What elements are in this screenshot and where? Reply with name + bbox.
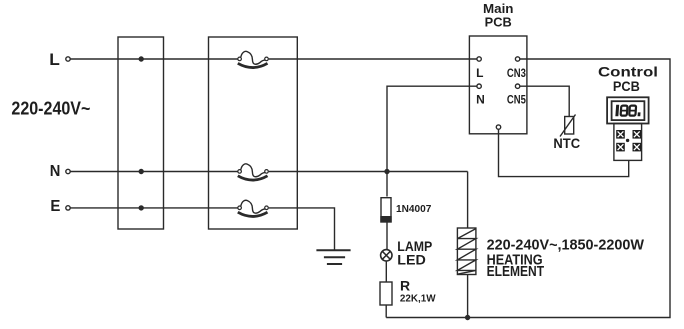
- svg-text:PCB: PCB: [485, 16, 512, 30]
- switch box: [209, 37, 298, 229]
- wire Main PCB bottom pin to Control PCB: [499, 129, 629, 176]
- wire heating element bottom: [467, 275, 469, 318]
- terminal N: [66, 169, 70, 173]
- wire N switch to heating element corner: [269, 171, 468, 173]
- wire resistor to bottom rail: [385, 305, 387, 318]
- wire E terminal to switch: [70, 207, 237, 209]
- wire E switch to ground: [269, 208, 335, 250]
- bottom rail wire: [386, 59, 670, 318]
- wire CN5 to NTC: [520, 86, 569, 116]
- svg-text:CN5: CN5: [507, 93, 526, 107]
- wire heating element top: [467, 172, 469, 229]
- junction dot N in terminal block: [139, 170, 143, 174]
- pin bottom of Main PCB: [496, 125, 500, 129]
- svg-text:220-240V~: 220-240V~: [11, 99, 90, 119]
- pin CN5 of Main PCB: [515, 84, 519, 88]
- svg-text:PCB: PCB: [613, 79, 640, 94]
- junction dot heating element bottom: [466, 316, 470, 320]
- terminal L: [66, 57, 70, 61]
- svg-text:L: L: [49, 50, 60, 69]
- button 4: [633, 143, 642, 152]
- pin CN3 of Main PCB: [515, 57, 519, 61]
- wire L switch to Main PCB: [269, 58, 477, 60]
- Control PCB display window: [612, 101, 645, 120]
- terminal E: [66, 206, 70, 210]
- pin N of Main PCB: [477, 84, 481, 88]
- switch S2 (N line): [238, 164, 269, 180]
- wire N pin to diode branch: [387, 86, 477, 196]
- svg-text:Control: Control: [598, 65, 658, 80]
- button 3: [616, 143, 625, 152]
- svg-text:22K,1W: 22K,1W: [400, 294, 436, 305]
- svg-text:E: E: [50, 198, 60, 215]
- terminal block box: [118, 37, 164, 229]
- resistor R 22K,1W: [380, 282, 392, 305]
- switch S1 (L line): [238, 51, 269, 67]
- NTC thermistor: [560, 115, 576, 137]
- ground: [316, 250, 350, 264]
- label 188 display: [615, 105, 641, 117]
- pin L of Main PCB: [477, 57, 481, 61]
- svg-text:N: N: [50, 163, 61, 180]
- junction dot E in terminal block: [139, 206, 143, 210]
- Control PCB display frame: [607, 97, 649, 123]
- wire N terminal to switch: [70, 171, 237, 173]
- button 1: [616, 130, 625, 139]
- svg-text:R: R: [400, 278, 410, 294]
- wire diode to lamp: [386, 222, 388, 250]
- svg-text:1N4007: 1N4007: [396, 204, 432, 215]
- svg-text:NTC: NTC: [553, 136, 580, 151]
- svg-text:220-240V~,1850-2200W: 220-240V~,1850-2200W: [487, 237, 645, 253]
- svg-text:L: L: [476, 66, 483, 80]
- Control PCB keypad body: [614, 124, 642, 161]
- wire lamp to resistor: [385, 261, 387, 282]
- lamp LED: [381, 250, 392, 261]
- svg-text:N: N: [476, 93, 485, 107]
- junction dot L in terminal block: [139, 57, 143, 61]
- svg-text:CN3: CN3: [507, 66, 526, 80]
- switch S3 (E line): [238, 200, 269, 216]
- svg-text:Main: Main: [483, 2, 514, 16]
- junction dot N branch: [385, 170, 389, 174]
- svg-text:ELEMENT: ELEMENT: [487, 264, 545, 280]
- Main PCB box U1: [469, 36, 527, 134]
- svg-text:LED: LED: [397, 251, 426, 267]
- wire L terminal to switch: [70, 58, 237, 60]
- keypad center dot: [626, 139, 629, 142]
- button 2: [633, 130, 642, 139]
- diode D1 1N4007: [381, 198, 391, 222]
- heating element: [457, 228, 476, 275]
